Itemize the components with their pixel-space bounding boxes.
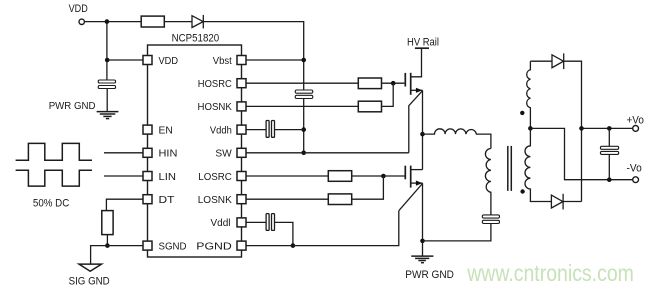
node junction PGND row [291,243,296,248]
wire HIN input [104,152,143,154]
power HV Rail bar [415,47,429,49]
wire junction to VDD pin [107,59,143,61]
svg-text:LOSNK: LOSNK [198,194,232,206]
wire top diode to cathode rail [564,61,582,201]
wire center tap to -Vo row [530,128,632,179]
wire Vddh pin to capacitor [246,129,266,131]
node junction +Vo rail [579,126,584,131]
svg-text:PWR GND: PWR GND [49,100,96,112]
resistor R-LOSNK [328,194,351,205]
wire Vddl cap to PGND row [275,222,293,245]
wire LOSNK row [246,198,328,200]
wire ground to primary return [423,224,491,241]
wire bootstrap column lower [303,99,305,153]
diode D2 (bottom rectifier) [551,194,563,210]
pin Vbst [213,55,246,67]
svg-text:Vddl: Vddl [211,217,231,229]
ground PWR GND (left) [49,100,119,119]
capacitor C-bst (bootstrap) [295,90,313,99]
resistor R-HOSRC [358,78,381,89]
node phase dot secondary bottom [520,189,524,193]
wire VDD column vertical [106,22,108,80]
node terminal +Vo [627,115,644,132]
node junction SGND row [105,243,110,248]
svg-text:-Vo: -Vo [627,162,642,174]
IC U1 NCP51820 body [148,32,242,257]
node junction SW row [301,151,306,156]
wire Vddl pin to capacitor [246,221,266,223]
pin HIN [143,148,177,160]
node junction center tap [528,126,533,131]
svg-text:VDD: VDD [159,55,179,67]
wire HS source diagonal to SW trace [409,91,423,153]
svg-text:NCP51820: NCP51820 [172,32,220,44]
pin DT [143,194,175,206]
wire DT to resistor [106,199,143,210]
wire HOSRC row [246,82,358,84]
pin Vddh [210,124,246,136]
svg-text:HOSRC: HOSRC [198,78,232,90]
pin LIN [143,171,176,183]
pin LOSRC [198,171,246,183]
svg-text:LIN: LIN [159,171,177,183]
pin LOSNK [198,194,246,206]
pin PGND [196,240,246,252]
svg-text:Vbst: Vbst [213,55,232,67]
node junction Vddh row [301,127,306,132]
capacitor C-blk (primary DC block) [482,215,499,224]
node junction power ground [420,239,425,244]
wire HS source down (SW node column) [422,90,424,169]
svg-text:LOSRC: LOSRC [198,171,232,183]
wire resistor to SGND row [106,235,108,246]
node junction HS gate [391,81,396,86]
node junction Vbst [301,58,306,63]
wire diode to Vbst column [203,22,303,90]
pin HOSRC [198,78,246,90]
wire cap to ground [106,89,108,112]
capacitor C-out [600,128,618,179]
transformer T1 secondary top winding [527,61,531,128]
node VDD terminal [69,3,88,25]
node terminal -Vo [627,162,642,182]
pin SGND [143,240,187,252]
svg-text:SGND: SGND [159,240,187,252]
transformer T1 secondary bottom winding [525,128,551,201]
wire resistor to diode [165,21,192,23]
wire HOSNK to gate junction [382,83,394,106]
wire LS source down to ground [422,183,424,256]
waveform LIN square wave [16,170,92,186]
waveform HIN square wave [16,143,92,160]
wire HOSRC resistor to gate [382,82,405,84]
svg-text:www.cntronics.com: www.cntronics.com [466,260,634,286]
wire bottom diode to cathode rail [563,201,581,203]
resistor Rboot [141,16,164,27]
svg-text:+Vo: +Vo [627,115,644,127]
node junction output cap top [607,126,612,131]
wire PGND row [246,211,399,246]
wire LS source diagonal to PGND [399,184,423,211]
wire Vddh cap to bootstrap column [275,129,304,131]
node junction VDD pin row [105,58,110,63]
node junction SW column to inductor [420,132,425,137]
node junction at VDD column [105,19,110,24]
wire VDD terminal to junction [84,21,141,23]
pin Vddl [211,217,247,229]
ground PWR GND (bridge) [405,256,454,281]
transformer T1 primary winding [485,149,490,215]
wire SGND pin to junction and to SIG GND [91,246,143,264]
svg-text:EN: EN [159,124,173,136]
svg-text:HIN: HIN [159,148,178,160]
capacitor C-vddl [266,214,274,231]
wire HV rail to drain [411,48,422,77]
node junction LS gate [381,174,386,179]
pin VDD (left) [143,55,178,67]
transistor Q1 high-side MOSFET [404,73,422,95]
ground SIG GND triangle [69,264,110,287]
pin SW [215,148,246,160]
wire +Vo row [582,127,633,129]
node junction output cap bottom [607,177,612,182]
wire LOSRC row [246,175,328,177]
svg-text:DT: DT [159,194,176,206]
transistor Q2 low-side MOSFET [405,166,422,188]
diode D1 (top rectifier) [552,53,564,69]
resistor R-HOSNK [358,101,381,112]
svg-text:50% DC: 50% DC [33,197,69,209]
inductor L1 resonant [423,129,491,149]
capacitor C-vddh [266,121,274,138]
resistor R-DT [102,211,113,235]
wire Vbst pin to bootstrap column [246,59,304,61]
svg-text:SIG GND: SIG GND [69,275,110,287]
diode Dboot [192,15,203,29]
pin HOSNK [198,101,247,113]
pin EN [143,124,173,136]
wire HOSNK row [246,105,358,107]
wire secondary top to diode [530,60,552,62]
resistor R-LOSRC [328,171,351,182]
wire LOSNK to gate junction [352,176,384,199]
svg-text:VDD: VDD [69,3,88,15]
svg-text:PGND: PGND [196,240,232,252]
svg-text:SW: SW [215,148,231,160]
svg-text:HOSNK: HOSNK [198,101,232,113]
transformer T1 core [508,146,512,191]
svg-text:Vddh: Vddh [210,124,232,136]
node phase dot secondary top [520,111,524,115]
svg-text:PWR GND: PWR GND [405,269,454,281]
wire SW row [246,152,409,154]
wire LIN input [104,175,143,177]
wire LOSRC resistor to gate [352,175,406,177]
capacitor C-vdd (PWR GND decoupling) [98,80,115,89]
svg-text:HV Rail: HV Rail [407,36,439,48]
